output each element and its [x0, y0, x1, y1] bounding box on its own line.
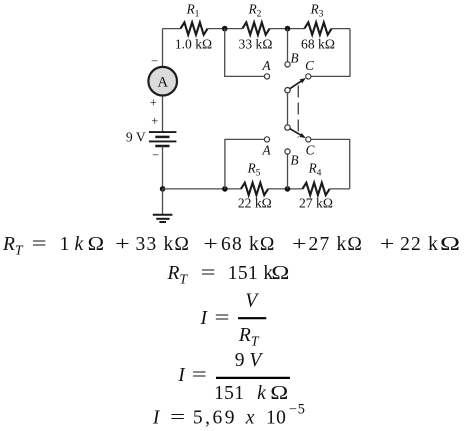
svg-text:9 V: 9 V [235, 350, 264, 371]
switch ganged dashed linkage [297, 86, 299, 138]
svg-text:k: k [75, 234, 84, 255]
node bottom B junction [285, 186, 291, 192]
svg-text:RT: RT [167, 263, 189, 286]
svg-text:Ω: Ω [271, 263, 289, 284]
resistor R5 [241, 183, 268, 195]
equation line 2: RT = 151 kohm [167, 263, 290, 286]
wire R1 to R2 [208, 28, 243, 30]
svg-text:27 kΩ: 27 kΩ [299, 195, 333, 210]
svg-text:Ω: Ω [440, 234, 460, 255]
wire ammeter to battery [162, 96, 164, 132]
svg-text:V: V [245, 291, 259, 312]
wire right vertical upper [311, 29, 350, 77]
battery plate long 2 [149, 140, 177, 142]
svg-text:A: A [157, 74, 168, 90]
wire bottom right segment [330, 188, 350, 190]
battery BT1 plate long 1 [149, 131, 177, 133]
svg-text:151 k: 151 k [228, 263, 274, 284]
svg-text:33 kΩ: 33 kΩ [136, 234, 191, 255]
wire top left segment [163, 28, 181, 30]
wire pole link [287, 93, 289, 125]
wire J1 down to contact A top [225, 29, 264, 77]
svg-text:R3: R3 [310, 2, 324, 20]
switch S2 contact A bottom [264, 137, 269, 142]
svg-text:C: C [305, 58, 314, 73]
node ground junction [160, 186, 166, 192]
svg-text:+: + [150, 96, 157, 110]
wire battery to bottom [162, 146, 164, 189]
svg-text:B: B [290, 152, 298, 167]
svg-text:+: + [203, 234, 218, 255]
svg-text:Ω: Ω [88, 234, 105, 255]
equation line 3: I = V / RT [199, 291, 266, 349]
switch S2 contact C bottom [306, 137, 311, 142]
equation line 5: I = 5,69 x 10^-5 [152, 401, 306, 428]
svg-text:10: 10 [266, 408, 286, 429]
svg-text:C: C [306, 142, 315, 157]
switch S1 contact A top [264, 74, 269, 79]
switch S1 contact B top [285, 62, 290, 67]
svg-text:−: − [151, 54, 158, 68]
battery plate short 1 [155, 136, 169, 139]
svg-text:I: I [199, 308, 208, 329]
equation line 4: I = 9 V / 151 kohm [177, 350, 290, 404]
resistor R4 [302, 183, 329, 195]
svg-text:33 kΩ: 33 kΩ [239, 37, 273, 52]
svg-text:A: A [261, 142, 271, 157]
svg-text:27 kΩ: 27 kΩ [309, 234, 364, 255]
battery plate short 2 [155, 145, 169, 148]
svg-text:R4: R4 [308, 160, 322, 178]
svg-text:−: − [152, 148, 159, 162]
svg-text:B: B [290, 51, 298, 66]
svg-text:68 kΩ: 68 kΩ [301, 37, 335, 52]
switch S1 contact C top [306, 74, 311, 79]
svg-text:+: + [151, 114, 158, 128]
svg-text:+: + [380, 234, 395, 255]
wire bottom B branch [287, 154, 289, 189]
svg-text:R5: R5 [247, 160, 261, 178]
wire left vertical to ammeter [162, 29, 164, 67]
svg-text:R1: R1 [186, 2, 200, 20]
resistor R1 [181, 22, 208, 34]
wire J2 down to contact B top [287, 29, 289, 62]
ammeter U1 circle [148, 67, 177, 96]
svg-text:22 k: 22 k [400, 234, 439, 255]
wire ground stem [162, 189, 164, 214]
wire R2 to R3 [270, 28, 305, 30]
svg-text:RT: RT [238, 325, 260, 348]
svg-text:A: A [261, 58, 271, 73]
resistor R3 [304, 22, 331, 34]
svg-text:=: = [201, 263, 216, 284]
svg-text:=: = [32, 234, 47, 255]
fraction bar 1 [238, 317, 266, 319]
svg-text:1: 1 [60, 234, 70, 255]
node J1 junction R1-R2 [222, 26, 228, 32]
switch S1 pole top [285, 88, 290, 93]
svg-text:+: + [292, 234, 307, 255]
wire bottom left segment [163, 188, 241, 190]
wire right vertical lower [311, 139, 350, 189]
svg-text:−5: −5 [289, 401, 306, 417]
svg-text:=: = [192, 365, 207, 386]
svg-text:I: I [152, 408, 161, 429]
fraction bar 2 [216, 377, 290, 379]
svg-text:=: = [215, 308, 230, 329]
svg-text:151: 151 [214, 383, 244, 404]
svg-text:9 V: 9 V [126, 129, 146, 144]
svg-text:Ω: Ω [270, 383, 288, 404]
ground [153, 215, 173, 222]
svg-text:I: I [177, 365, 186, 386]
svg-text:1.0 kΩ: 1.0 kΩ [175, 37, 212, 52]
svg-text:k: k [257, 383, 266, 404]
svg-text:R2: R2 [248, 2, 262, 20]
node J2 junction R2-R3 [285, 26, 291, 32]
switch S2 pole bottom [285, 125, 290, 130]
svg-text:=: = [170, 408, 185, 429]
svg-text:+: + [115, 234, 130, 255]
wire top right segment [332, 28, 350, 30]
svg-text:68 kΩ: 68 kΩ [221, 234, 276, 255]
node bottom A junction [222, 186, 228, 192]
svg-text:5,69: 5,69 [193, 408, 237, 429]
wire R5 to R4 [268, 188, 302, 190]
equation line 1: RT = 1 kohm + 33 kohm + 68 kohm + 27 kohm + 22 kohm [2, 234, 460, 257]
switch S2 arm to C [290, 129, 301, 136]
svg-text:22 kΩ: 22 kΩ [238, 195, 272, 210]
svg-text:RT: RT [2, 234, 24, 257]
wire bottom A branch [225, 139, 264, 189]
switch S2 contact B bottom [285, 149, 290, 154]
svg-text:x: x [245, 408, 255, 429]
resistor R2 [242, 22, 269, 34]
switch S1 arm to C [290, 81, 302, 89]
